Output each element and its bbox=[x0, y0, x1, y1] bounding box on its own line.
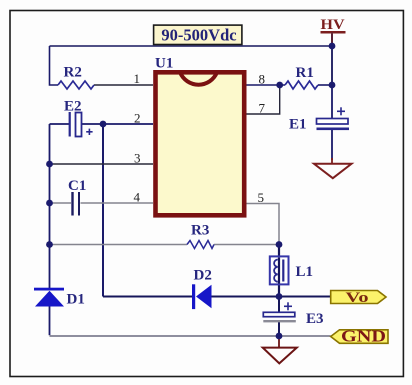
resistor R1 bbox=[285, 81, 318, 89]
ground symbol below E3 bbox=[263, 336, 297, 363]
junction at R1 E1 HV bbox=[329, 82, 336, 89]
svg-text:7: 7 bbox=[259, 101, 266, 116]
wire R1 right lead bbox=[318, 84, 332, 86]
svg-text:8: 8 bbox=[259, 72, 266, 87]
IC U1 bbox=[156, 72, 245, 215]
svg-text:1: 1 bbox=[134, 71, 141, 86]
junction at R3 L1 bbox=[276, 241, 283, 248]
wire Vo row bbox=[279, 296, 331, 298]
wire D1 to ground bus bbox=[49, 307, 51, 336]
svg-text:E2: E2 bbox=[64, 99, 82, 115]
junction at E3 GND bbox=[276, 333, 283, 340]
wire E1 top lead bbox=[331, 85, 333, 119]
wire E2 left lead bbox=[50, 123, 70, 125]
wire D2 to L1 column bbox=[212, 296, 280, 298]
svg-text:R2: R2 bbox=[64, 65, 82, 81]
resistor R3 bbox=[187, 241, 214, 249]
svg-text:D1: D1 bbox=[67, 292, 85, 308]
svg-text:D2: D2 bbox=[194, 268, 212, 284]
svg-text:3: 3 bbox=[134, 151, 141, 166]
wire E1 bottom lead bbox=[331, 130, 333, 160]
capacitor E2 bbox=[70, 112, 93, 137]
wire C1 to pin 4 bbox=[81, 202, 154, 204]
port Vo bbox=[331, 290, 386, 306]
wire pin 3 row bbox=[50, 163, 154, 165]
wire left column bbox=[49, 124, 51, 288]
svg-text:90-500Vdc: 90-500Vdc bbox=[161, 26, 236, 45]
wire E2 right to junction bbox=[82, 123, 103, 125]
wire R3 right lead bbox=[214, 244, 279, 246]
wire R2 to pin 1 bbox=[94, 84, 153, 86]
svg-text:R3: R3 bbox=[191, 223, 209, 239]
capacitor E1 bbox=[317, 107, 350, 130]
wire pin 8 row bbox=[246, 84, 285, 86]
svg-text:GND: GND bbox=[341, 327, 386, 346]
resistor R2 bbox=[58, 81, 94, 89]
wire R3 left lead bbox=[50, 244, 188, 246]
diode D1 bbox=[34, 288, 64, 307]
wire HV drop bbox=[331, 34, 333, 85]
wire top bus bbox=[50, 45, 333, 47]
wire pin 5 row bbox=[246, 204, 279, 245]
svg-text:E1: E1 bbox=[289, 117, 307, 133]
svg-text:Vo: Vo bbox=[346, 290, 369, 306]
wire C1 left lead bbox=[50, 202, 72, 204]
svg-text:C1: C1 bbox=[68, 178, 86, 194]
capacitor C1 bbox=[73, 192, 80, 216]
value label 90-500Vdc bbox=[154, 25, 242, 44]
svg-text:2: 2 bbox=[134, 111, 141, 126]
wire junction to pin 2 bbox=[103, 123, 153, 125]
junction at E2 output bbox=[100, 121, 107, 128]
ground symbol below E1 bbox=[314, 158, 352, 178]
svg-text:U1: U1 bbox=[155, 56, 173, 72]
junction at pin 8 and pin 7 bbox=[276, 82, 283, 89]
wire D2 row left bbox=[103, 296, 192, 298]
port GND bbox=[331, 327, 388, 346]
wire pin 7 branch bbox=[246, 85, 280, 114]
wire left drop to R2 bbox=[50, 46, 59, 85]
junction at R3 left bbox=[46, 241, 53, 248]
svg-text:E3: E3 bbox=[306, 311, 324, 327]
capacitor E3 bbox=[263, 302, 296, 322]
svg-text:HV: HV bbox=[321, 17, 345, 33]
inductor L1 bbox=[270, 256, 289, 284]
wire E3 top lead bbox=[278, 297, 280, 313]
wire mid column bbox=[102, 124, 104, 297]
svg-text:5: 5 bbox=[258, 190, 265, 205]
diode D2 bbox=[192, 284, 212, 309]
wire L1 column bbox=[278, 245, 280, 297]
junction at C1 row bbox=[46, 200, 53, 207]
svg-text:L1: L1 bbox=[296, 264, 314, 280]
svg-text:4: 4 bbox=[134, 190, 141, 205]
power port HV bbox=[321, 17, 346, 46]
junction at L1 D2 Vo bbox=[276, 293, 283, 300]
junction at pin 3 row bbox=[46, 161, 53, 168]
wire ground bus to GND port bbox=[279, 335, 331, 337]
svg-text:R1: R1 bbox=[296, 65, 314, 81]
junction at HV and top bus bbox=[329, 43, 336, 50]
wire E3 bottom lead bbox=[278, 322, 280, 336]
